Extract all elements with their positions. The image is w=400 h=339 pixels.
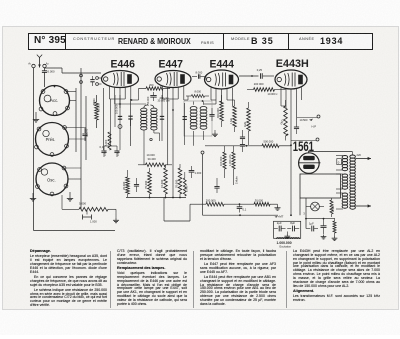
resistor 100.000 vertical det	[219, 146, 226, 178]
antenna symbol	[37, 55, 42, 68]
capacitor C/73 trimmer	[101, 146, 107, 157]
ground det left	[212, 130, 218, 137]
capacitor IF1 right	[160, 95, 164, 141]
wire bus v1	[75, 88, 77, 152]
label +MT	[275, 215, 284, 219]
svg-text:2.500: 2.500	[332, 205, 335, 212]
rule 1	[109, 251, 112, 308]
bottom left bus	[34, 230, 116, 232]
wire vertical x103	[103, 88, 105, 150]
resistor 15.000 vertical	[160, 165, 167, 197]
antenna terminal A2	[43, 62, 50, 68]
resistor vertical x109	[105, 132, 111, 150]
svg-text:400.000: 400.000	[216, 108, 220, 118]
label 10.000 ohm	[268, 92, 279, 96]
svg-text:100.000: 100.000	[219, 156, 223, 166]
bottom text column 3	[200, 250, 276, 308]
wire Acc to bus	[66, 92, 76, 101]
resistor 70.000 vertical	[144, 168, 151, 197]
terminal pins x81	[80, 74, 83, 83]
resistor 200.000 avc	[190, 198, 254, 206]
svg-text:1.000: 1.000	[90, 220, 97, 224]
svg-text:10.000: 10.000	[85, 128, 89, 137]
filter box	[274, 221, 301, 238]
capacitor 10.000	[82, 128, 88, 141]
resistor 200 between V1 V2	[139, 83, 171, 90]
V4 pin wires	[281, 87, 302, 215]
tube V1 E446	[102, 71, 139, 88]
tube V2 E447	[155, 71, 191, 88]
resistor 30.000 avc	[254, 198, 278, 206]
power transformer secondary	[350, 152, 356, 209]
tube V1 label E446	[111, 58, 135, 70]
svg-text:Prés.: Prés.	[46, 137, 56, 142]
svg-text:E447: E447	[159, 58, 183, 70]
capacitor 0,1 avc	[237, 203, 247, 212]
ground below Osc left	[30, 193, 36, 201]
capacitor 1uF	[306, 222, 318, 232]
ground filter mid	[284, 232, 290, 239]
svg-text:70.000: 70.000	[144, 180, 148, 189]
label 1Mcm	[235, 176, 239, 184]
mid bus wire	[126, 197, 186, 199]
capacitor C/72 trimmer	[114, 146, 120, 157]
svg-text:C/73: C/73	[103, 150, 107, 156]
capacitor det lower	[214, 178, 219, 193]
ground osc r	[113, 209, 119, 222]
capacitor mid a	[209, 108, 214, 121]
resistor 10.000 30.400 horizontal	[138, 153, 172, 167]
IF transformer T2 primary	[190, 102, 197, 146]
capacitor series det	[240, 130, 245, 152]
resistor 1 Mo vertical b	[243, 102, 250, 145]
label 1561	[293, 138, 314, 154]
svg-text:E443H: E443H	[276, 58, 309, 70]
resistor 30.000 vertical	[95, 95, 101, 128]
wire osc drop	[61, 195, 63, 209]
wire rect to MT	[300, 198, 306, 229]
svg-text:1561: 1561	[293, 138, 314, 154]
wire bus v3	[85, 96, 87, 160]
output terminal HP a	[297, 115, 320, 122]
wire V3 pins join	[204, 100, 235, 104]
capacitor padding IF1 left	[128, 116, 132, 126]
capacitor x92	[90, 76, 94, 86]
resistor 400.000 vertical	[216, 95, 223, 127]
wire bus v2	[80, 68, 82, 209]
svg-text:200 000: 200 000	[254, 82, 264, 86]
svg-text:1.000.000: 1.000.000	[277, 241, 292, 245]
capacitor 200 cm	[150, 92, 168, 101]
svg-text:30.400: 30.400	[148, 157, 157, 161]
svg-text:0,1: 0,1	[243, 207, 247, 211]
V1 pin wires	[110, 87, 131, 109]
wire MT bus	[203, 214, 279, 216]
wire tone top	[305, 218, 334, 220]
svg-text:8.000: 8.000	[195, 90, 202, 94]
resistor 1 K vertical	[279, 100, 287, 141]
resistor 20.000 vertical	[122, 170, 129, 197]
svg-text:E444: E444	[210, 58, 234, 70]
svg-text:15.000: 15.000	[160, 179, 164, 188]
tube V2 label E447	[159, 58, 183, 70]
resistor 3.Ro between V2 V3	[186, 90, 209, 98]
junction dots row	[131, 99, 204, 111]
antenna terminal A1	[28, 62, 35, 68]
wire A2 cap to Acc coil	[44, 76, 46, 87]
svg-text:1.000 c/m: 1.000 c/m	[228, 155, 232, 166]
rectifier tube 1561	[299, 151, 353, 174]
IF transformer T2 secondary	[200, 102, 207, 141]
V2 pin wires	[163, 87, 184, 198]
svg-text:8.000: 8.000	[196, 70, 203, 74]
wire top h	[45, 68, 102, 73]
wire A1 down	[33, 68, 35, 231]
svg-text:5.000: 5.000	[105, 139, 108, 146]
wire Pres to bus	[65, 128, 87, 140]
svg-text:20.000: 20.000	[122, 181, 126, 190]
output terminal HP b	[291, 138, 319, 141]
resistor 1.000 cm vertical det	[228, 146, 235, 185]
wire V2 pins join	[163, 96, 189, 100]
rule 3	[285, 251, 288, 308]
filter capacitor 2uF	[274, 221, 286, 232]
V3 pin wires	[211, 88, 233, 106]
filter capacitor 8uF	[287, 221, 299, 232]
bottom text column 2	[117, 250, 187, 308]
svg-text:C/72: C/72	[116, 150, 120, 156]
svg-text:600Ω: 600Ω	[92, 99, 96, 106]
mains arrow top	[356, 153, 372, 160]
capacitor 1.000 osc	[83, 209, 98, 223]
svg-text:150.000: 150.000	[146, 96, 150, 106]
svg-text:30.000 c/m: 30.000 c/m	[158, 100, 170, 103]
wire V4 join	[279, 90, 292, 217]
svg-text:30.000: 30.000	[96, 103, 100, 112]
svg-text:E446: E446	[111, 58, 135, 70]
svg-text:H.P: H.P	[312, 125, 317, 129]
resistor 5.000 osc	[62, 202, 116, 212]
capacitor trimmer x120	[118, 95, 122, 150]
tube V4 E443H	[275, 70, 307, 89]
IF transformer T1 primary	[141, 104, 148, 165]
svg-text:6.000: 6.000	[48, 70, 55, 74]
pilot lamp	[306, 202, 324, 211]
resistor 200.000	[247, 82, 279, 91]
svg-text:10.000 c: 10.000 c	[268, 92, 279, 96]
capacitor 8.000 between V2 V3	[192, 70, 206, 80]
label 30.000 cm	[158, 100, 170, 103]
svg-text:1Mc/m: 1Mc/m	[235, 176, 239, 184]
svg-text:1 Mo: 1 Mo	[229, 118, 233, 124]
svg-text:100.000: 100.000	[114, 104, 118, 114]
terminal pins left of V1	[96, 77, 102, 86]
capacitor 6.000 antenna series	[42, 68, 55, 76]
tuning coil assembly Osc.	[36, 163, 68, 196]
capacitor grid V4	[294, 120, 299, 134]
resistor tone vertical	[333, 218, 336, 236]
terminal circle mid	[201, 151, 204, 215]
ground avc	[274, 204, 280, 210]
bottom text column 4	[293, 250, 380, 304]
wire V1 pins join	[110, 89, 147, 105]
tube V4 label E443H	[276, 58, 309, 70]
power transformer primary	[336, 156, 348, 210]
rule 2	[192, 251, 195, 308]
svg-text:Acc.: Acc.	[50, 98, 58, 103]
ground tone b	[332, 236, 338, 241]
capacitor IF2 inner	[183, 103, 187, 145]
svg-text:5.000: 5.000	[185, 185, 189, 192]
svg-text:5.000: 5.000	[79, 202, 86, 206]
ground tone a	[321, 235, 327, 240]
resistor bias vertical	[330, 198, 335, 217]
resistor 5.000 vertical	[183, 172, 188, 196]
capacitor 0,25 coupling	[239, 68, 274, 79]
label HP	[312, 125, 317, 129]
wire drop mid	[164, 198, 190, 222]
svg-text:0,25: 0,25	[257, 68, 263, 72]
svg-text:10.000: 10.000	[147, 153, 156, 157]
svg-text:1µF: 1µF	[309, 222, 314, 226]
wire trimmer link	[104, 99, 117, 146]
svg-text:1.000: 1.000	[195, 171, 202, 175]
label 150.000 rotated	[146, 96, 150, 106]
HT bus rectangle	[300, 174, 341, 198]
header box	[28, 33, 373, 50]
svg-text:500.000: 500.000	[264, 139, 274, 143]
wire vertical x115	[114, 95, 118, 127]
svg-text:30.000: 30.000	[255, 198, 264, 202]
label 0,1	[100, 145, 104, 149]
svg-text:10.500: 10.500	[300, 118, 308, 122]
resistor 1 Mo vertical	[229, 100, 236, 132]
tube V3 label E444	[210, 58, 234, 70]
capacitor 1.000 mid	[189, 166, 202, 178]
svg-text:70.000: 70.000	[175, 179, 179, 188]
transformer tap box 0	[337, 159, 342, 165]
terminal circle IF1	[150, 138, 152, 140]
IF transformer T1 secondary	[150, 105, 159, 141]
svg-text:200: 200	[149, 83, 154, 87]
svg-text:Osc.: Osc.	[47, 177, 56, 182]
mains arrow bottom	[356, 204, 372, 207]
ground below Osc right	[67, 192, 73, 201]
tube V3 E444	[205, 70, 239, 89]
svg-text:220: 220	[357, 153, 362, 157]
ground below Acc	[33, 112, 39, 122]
svg-text:1Mo: 1Mo	[243, 121, 247, 127]
speaker field coil 1.000.000	[277, 238, 300, 249]
wire vertical left of IF1	[130, 99, 132, 146]
resistor 500.000 horizontal	[205, 134, 291, 148]
bottom text column 1	[30, 250, 107, 309]
tuning coil assembly Acc.	[39, 86, 69, 116]
tuning coil assembly Pres.	[35, 123, 69, 157]
label 600 rotated	[92, 99, 96, 106]
IF transformer T2 shield can	[184, 101, 212, 136]
svg-text:+MT: +MT	[278, 215, 284, 219]
capacitor mid b	[134, 178, 139, 192]
svg-text:Excitation: Excitation	[280, 244, 292, 248]
capacitor tone	[321, 218, 327, 234]
resistor 70.000 vertical b	[175, 164, 182, 197]
svg-text:200.000: 200.000	[206, 198, 216, 202]
wire Osc to bus	[64, 168, 81, 179]
